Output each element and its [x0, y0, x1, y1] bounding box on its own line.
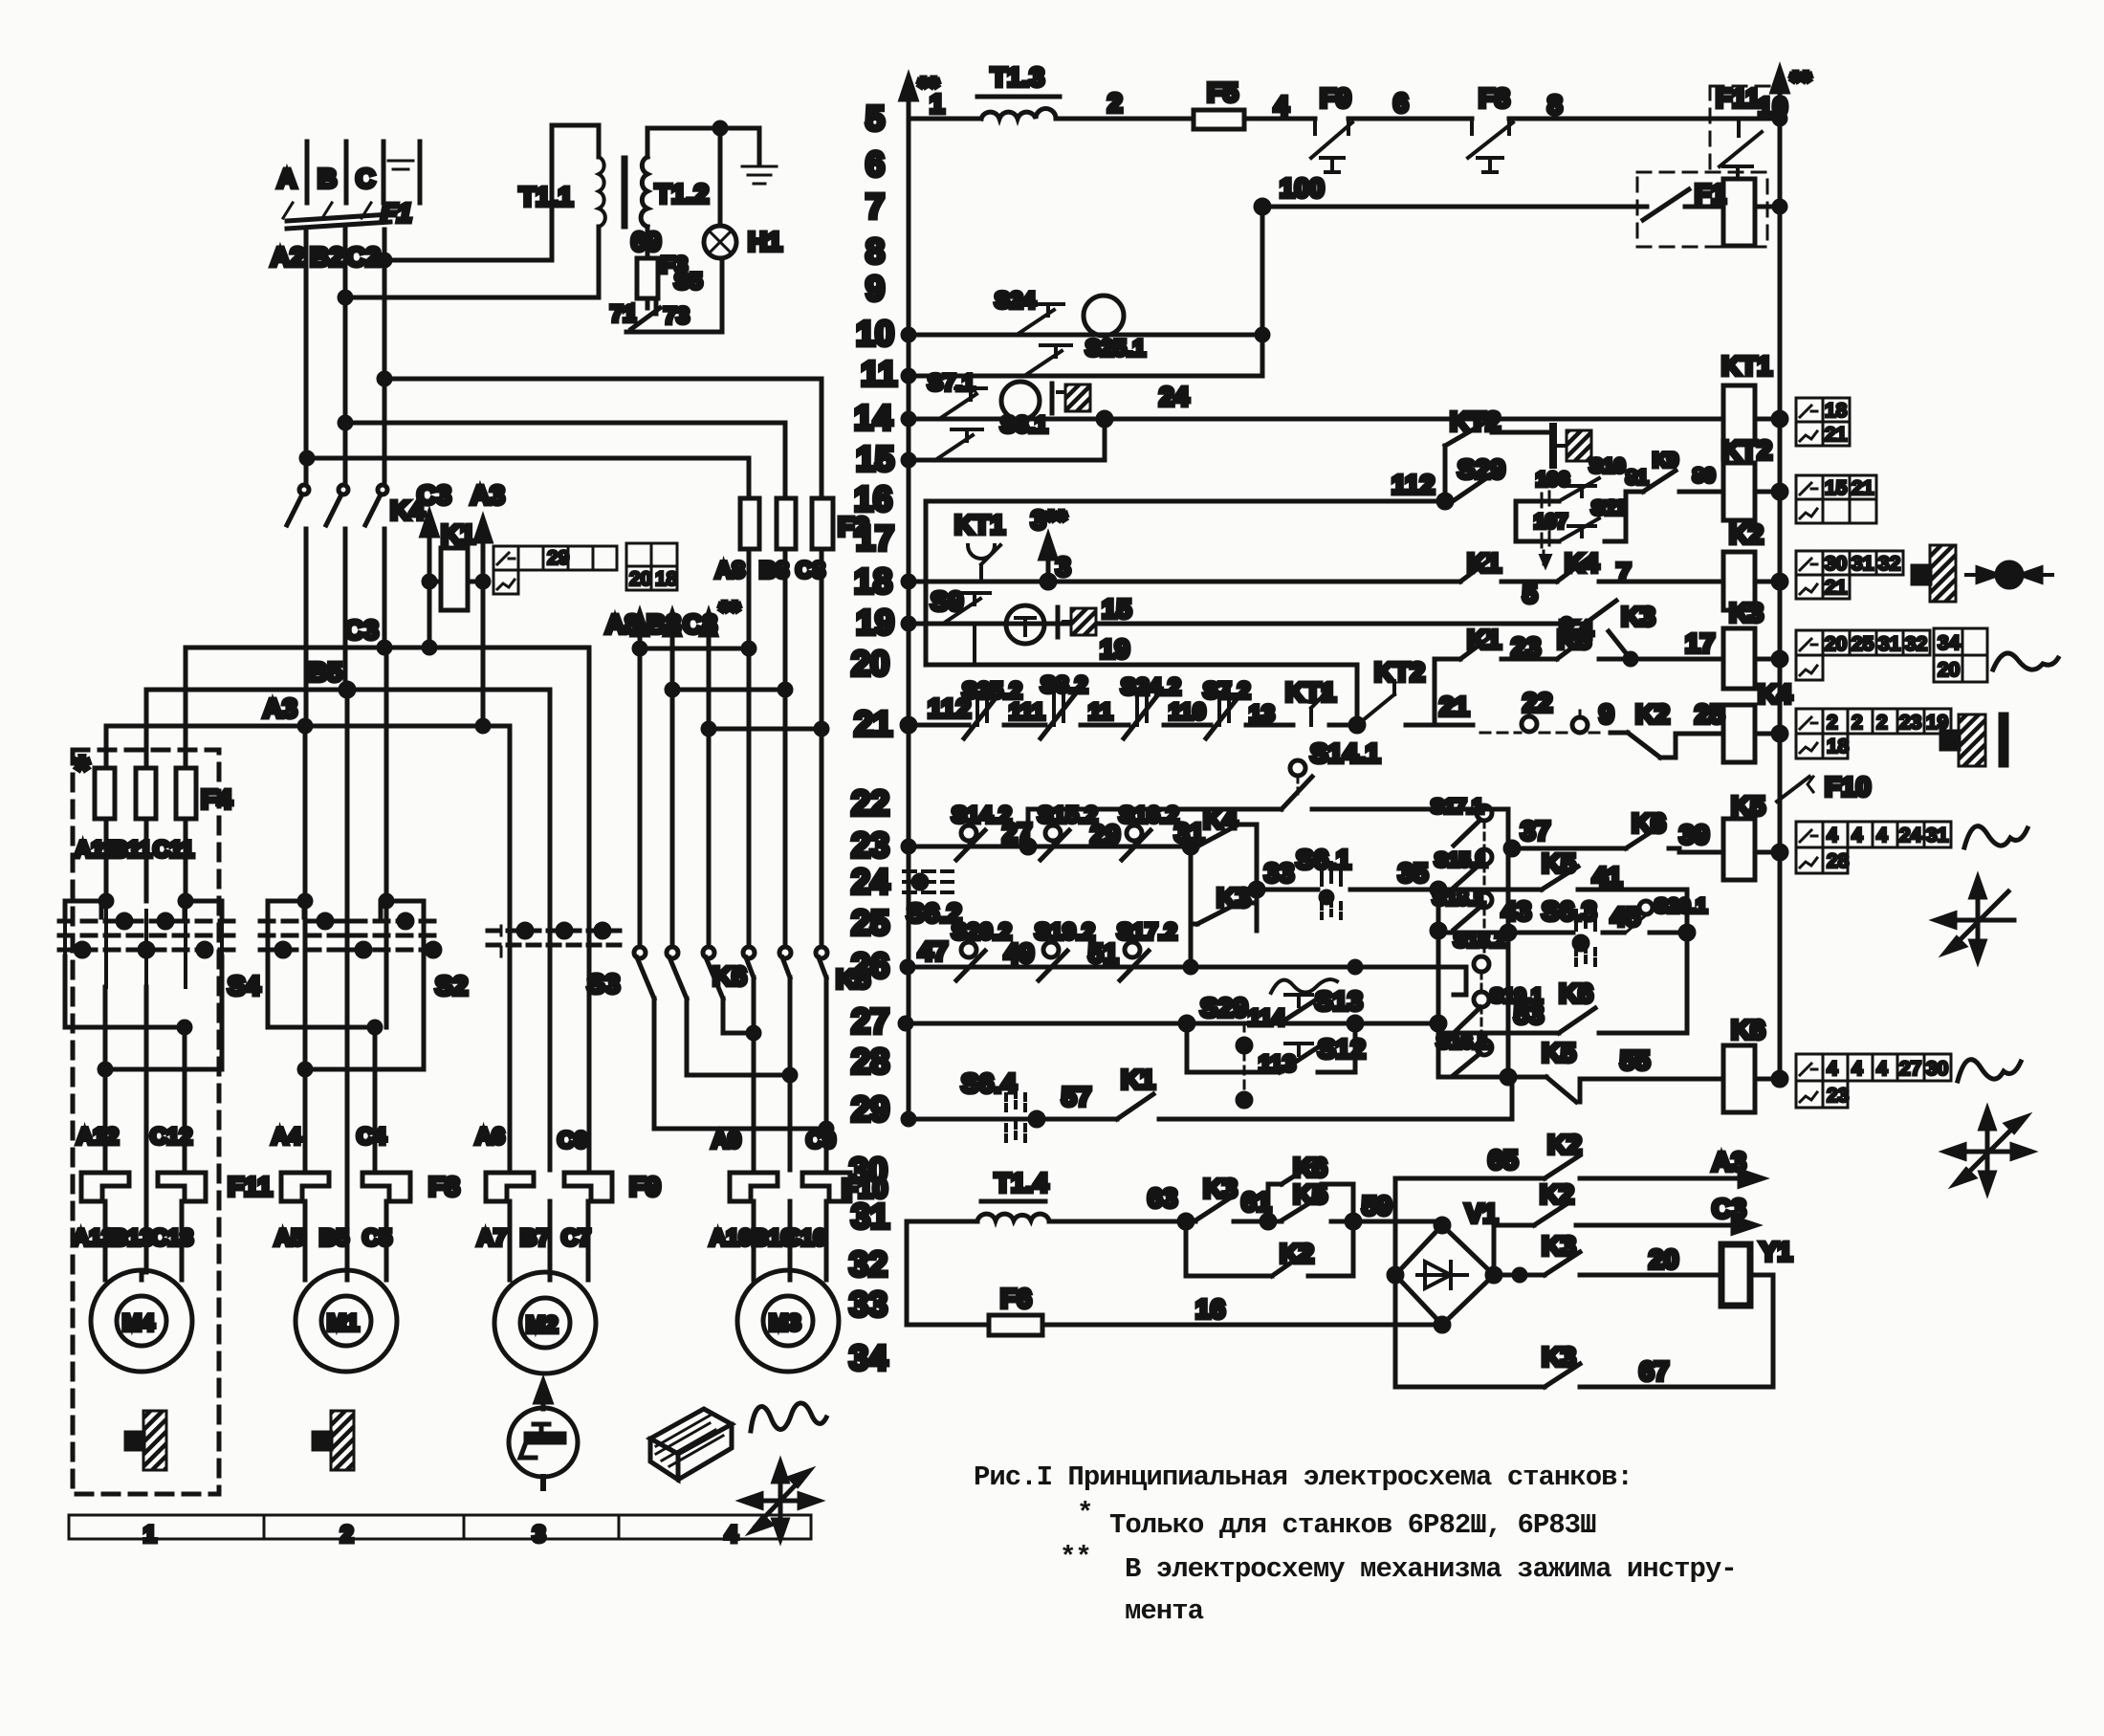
contact K2 row32 — [1186, 1221, 1353, 1276]
thermal element F10 — [730, 1173, 888, 1203]
svg-text:F11: F11 — [1716, 83, 1761, 113]
svg-text:24: 24 — [851, 862, 889, 901]
svg-text:A3: A3 — [1712, 1147, 1746, 1176]
svg-text:21: 21 — [1825, 424, 1848, 446]
svg-text:26: 26 — [851, 946, 889, 985]
row 31 line — [907, 1215, 1442, 1228]
dashed option box — [73, 750, 219, 1494]
solenoid Y1 — [1721, 1237, 1792, 1387]
svg-text:S6.3: S6.3 — [1542, 896, 1597, 926]
svg-text:B5: B5 — [308, 657, 342, 687]
svg-text:34: 34 — [1938, 632, 1961, 654]
contact K3 row24 — [1191, 846, 1257, 924]
svg-text:24: 24 — [1899, 824, 1922, 846]
svg-text:KT1: KT1 — [954, 510, 1005, 539]
electromagnet row19 — [1058, 607, 1096, 637]
svg-text:S8.1: S8.1 — [1000, 412, 1047, 438]
icon spindle M4 — [126, 1411, 166, 1470]
K3 contact table — [1796, 628, 1987, 682]
svg-text:K1: K1 — [441, 519, 475, 549]
svg-text:9: 9 — [1599, 699, 1614, 729]
svg-text:A13: A13 — [73, 1225, 115, 1251]
svg-text:H1: H1 — [748, 227, 782, 256]
svg-text:23: 23 — [1511, 632, 1541, 662]
svg-text:10: 10 — [856, 314, 894, 353]
contactor coil K5 — [1723, 791, 1786, 880]
row 43 line — [1438, 896, 1694, 939]
dashed box F11 — [1710, 86, 1771, 170]
row 26 line — [902, 924, 1466, 973]
wire M4 crossover — [65, 956, 222, 1272]
svg-text:C12: C12 — [150, 1124, 192, 1150]
svg-text:F9: F9 — [1320, 83, 1351, 113]
brake symbol row16 — [1553, 427, 1591, 465]
svg-text:22: 22 — [1523, 688, 1552, 717]
svg-text:K2: K2 — [1729, 519, 1764, 549]
svg-text:C3: C3 — [417, 480, 451, 510]
svg-text:1: 1 — [930, 89, 945, 119]
svg-text:18: 18 — [1827, 736, 1850, 758]
svg-text:F9: F9 — [629, 1172, 661, 1201]
fuse F4 b — [136, 768, 156, 819]
row 7 line 100 — [1256, 173, 1723, 220]
switch S17.2 — [1117, 919, 1177, 980]
svg-text:17: 17 — [1685, 628, 1715, 658]
svg-text:T1.3: T1.3 — [991, 62, 1044, 92]
svg-text:A6: A6 — [475, 1124, 505, 1150]
switch S14.2 — [952, 802, 1012, 860]
svg-text:25: 25 — [1852, 633, 1874, 655]
svg-text:A4: A4 — [272, 1124, 301, 1150]
motor M2 — [494, 1201, 596, 1373]
svg-text:S3: S3 — [587, 969, 620, 999]
svg-text:C3: C3 — [344, 615, 379, 645]
wavy symbol row26 — [1271, 979, 1337, 993]
svg-text:A: A — [277, 164, 296, 193]
bus left — [901, 72, 939, 1119]
svg-text:S12: S12 — [1318, 1034, 1366, 1064]
contactor K5 contacts — [743, 947, 870, 1170]
motor M3 — [737, 1201, 839, 1372]
svg-text:43: 43 — [1501, 896, 1531, 926]
contactor coil K2 — [1723, 519, 1786, 610]
svg-text:F4: F4 — [201, 784, 232, 814]
thermal element F9 — [486, 1172, 661, 1201]
svg-text:K4: K4 — [1758, 679, 1792, 709]
row 27 line — [900, 1017, 1438, 1030]
svg-text:21: 21 — [1439, 692, 1469, 721]
svg-text:M2: M2 — [526, 1312, 558, 1338]
svg-text:20: 20 — [1938, 659, 1960, 681]
svg-text:49: 49 — [1004, 938, 1034, 968]
KT1 contact table — [1796, 398, 1850, 446]
row 19 line 15 — [903, 594, 1572, 629]
row 18 line — [903, 575, 1723, 588]
svg-text:**: ** — [1060, 1542, 1091, 1573]
svg-text:K1: K1 — [1121, 1065, 1155, 1094]
svg-text:A7: A7 — [477, 1225, 507, 1251]
contactor K6 contacts — [634, 947, 747, 1129]
row 24 line 33 — [1250, 858, 1439, 896]
wire C8 arrow stub — [683, 596, 827, 735]
wire bus C to F2 — [379, 373, 822, 498]
svg-text:73: 73 — [664, 303, 690, 329]
switch S29 row16 — [1453, 454, 1505, 501]
svg-text:S17.2: S17.2 — [1117, 919, 1177, 945]
svg-text:30: 30 — [849, 1151, 888, 1190]
icon table — [650, 1409, 732, 1480]
svg-text:9: 9 — [866, 269, 885, 308]
row 15 line — [903, 419, 1105, 466]
svg-text:3: 3 — [1056, 552, 1071, 582]
switch S8.1 — [935, 412, 1047, 460]
svg-text:*: * — [1077, 1498, 1092, 1529]
wire A8 arrow stub — [605, 609, 755, 654]
svg-text:47: 47 — [918, 936, 948, 966]
svg-text:2: 2 — [1852, 712, 1863, 734]
svg-text:35: 35 — [1398, 858, 1428, 888]
transformer T1.2 — [641, 128, 720, 227]
right group left bracket — [1432, 883, 1445, 1077]
svg-text:C6: C6 — [558, 1128, 587, 1154]
svg-text:S24: S24 — [995, 288, 1036, 314]
svg-text:K3: K3 — [1621, 602, 1655, 631]
scale bar — [69, 1515, 811, 1548]
svg-text:45: 45 — [1611, 902, 1640, 932]
wire 100 vertical — [1260, 207, 1265, 376]
svg-text:S11: S11 — [1591, 497, 1627, 519]
svg-text:B11: B11 — [111, 837, 152, 863]
terminal B — [318, 142, 346, 203]
svg-text:A2: A2 — [271, 242, 305, 272]
svg-text:100: 100 — [1280, 173, 1325, 203]
terminal C — [356, 142, 384, 203]
row 23 line — [903, 809, 1197, 853]
svg-text:K6: K6 — [1559, 978, 1593, 1008]
contactor coil K6 — [1723, 1015, 1786, 1112]
switch S11 — [1534, 497, 1627, 568]
clutch S6.4 — [961, 1068, 1091, 1144]
bus right — [1772, 66, 1811, 1079]
breaker F1 dashed box — [1637, 172, 1767, 247]
svg-text:2: 2 — [1107, 88, 1123, 118]
ground top right — [720, 128, 777, 184]
svg-text:19: 19 — [856, 603, 894, 642]
vertical V1 left — [1393, 1178, 1398, 1387]
svg-text:S7.1: S7.1 — [928, 370, 975, 396]
svg-text:B8: B8 — [759, 558, 789, 583]
svg-text:3**: 3** — [1031, 505, 1066, 535]
svg-text:S20.1: S20.1 — [1655, 895, 1707, 917]
svg-text:11: 11 — [1088, 699, 1112, 725]
svg-text:S29: S29 — [1200, 993, 1248, 1022]
row 10 line — [903, 329, 1268, 341]
svg-text:4: 4 — [1852, 1058, 1863, 1080]
svg-text:T1.4: T1.4 — [995, 1168, 1048, 1198]
svg-text:15: 15 — [1825, 477, 1848, 499]
svg-text:F10: F10 — [1825, 772, 1871, 802]
row 16 line 112 — [926, 470, 1452, 665]
svg-text:B: B — [318, 164, 337, 193]
svg-text:16: 16 — [854, 479, 892, 518]
svg-text:20: 20 — [1649, 1244, 1678, 1274]
thermal contact F11 — [1716, 83, 1762, 179]
lamp H1 — [704, 122, 782, 258]
svg-text:21: 21 — [1825, 577, 1848, 599]
icon feed arrows K5 — [1936, 878, 2014, 960]
svg-text:114: 114 — [1248, 1005, 1285, 1031]
svg-text:29: 29 — [851, 1089, 889, 1129]
svg-text:S4: S4 — [228, 971, 261, 1000]
contact K1 row18 — [1460, 548, 1501, 582]
svg-text:5: 5 — [866, 99, 885, 138]
svg-text:28: 28 — [1827, 850, 1850, 872]
svg-text:23: 23 — [851, 825, 889, 865]
svg-text:A10: A10 — [710, 1225, 752, 1251]
svg-text:110: 110 — [1169, 699, 1206, 725]
svg-text:13: 13 — [1249, 701, 1275, 727]
svg-text:F1: F1 — [381, 198, 412, 228]
wire A3 distribution line — [106, 693, 510, 931]
switch S2 — [260, 895, 468, 1000]
contact K1 row29 — [1117, 1065, 1155, 1119]
contact KT2 row21 — [1357, 657, 1473, 725]
row 5 line — [909, 88, 1787, 124]
svg-text:51: 51 — [1088, 938, 1118, 968]
wire A11 column — [104, 726, 109, 901]
wire phase A vertical — [304, 230, 309, 484]
svg-text:20: 20 — [1825, 633, 1847, 655]
K2 contact table — [1796, 551, 1903, 599]
icon sine K5 — [1964, 826, 2027, 847]
row numbers — [849, 99, 897, 1377]
svg-text:6: 6 — [1393, 88, 1409, 118]
switch S19.1 — [1454, 967, 1543, 1033]
svg-text:C11: C11 — [153, 837, 194, 863]
svg-text:B2: B2 — [310, 242, 344, 272]
row 53 line — [1438, 1000, 1687, 1033]
svg-text:20: 20 — [851, 644, 889, 683]
row 11 line — [903, 370, 1262, 382]
icon sine K3 — [1993, 653, 2058, 670]
switch 22 dashed — [1480, 688, 1599, 733]
svg-text:4: 4 — [725, 1522, 738, 1548]
switch S20.2 — [952, 919, 1012, 980]
clutch S6.1 — [1296, 845, 1351, 918]
wire C3 distribution line — [186, 615, 589, 931]
svg-text:29: 29 — [1090, 820, 1120, 849]
wire C3 line — [1494, 1179, 1756, 1275]
svg-text:25: 25 — [1695, 699, 1724, 729]
svg-text:A5: A5 — [274, 1225, 304, 1251]
caption title — [974, 1461, 1737, 1627]
svg-text:10: 10 — [1758, 92, 1787, 121]
svg-text:20: 20 — [629, 568, 651, 590]
transformer T1.4 — [977, 1168, 1049, 1220]
svg-text:C4: C4 — [357, 1124, 386, 1150]
wire bus B to B8 fuse — [340, 417, 785, 498]
svg-text:7: 7 — [1616, 558, 1632, 587]
wire C11 column — [184, 648, 188, 901]
svg-text:106: 106 — [1536, 469, 1569, 491]
icon sine K6 — [1958, 1060, 2021, 1081]
svg-text:37: 37 — [1521, 816, 1550, 846]
wire B8 arrow stub — [647, 609, 791, 695]
row 14 line 24 — [903, 382, 1723, 426]
K1 contact table 2 — [626, 543, 678, 590]
wire feeds to K6 K5 contacts — [640, 648, 822, 946]
terminal PE ground — [388, 142, 420, 203]
contact K4 row18 — [1557, 548, 1599, 582]
svg-text:81: 81 — [1626, 467, 1649, 489]
rectifier V1 — [1389, 1198, 1501, 1331]
svg-text:29: 29 — [547, 547, 569, 569]
contact K5 row55 — [1542, 1038, 1576, 1102]
switch S13 — [1200, 986, 1363, 1031]
icon feed arrows K6 — [1945, 1110, 2031, 1192]
svg-text:B8: B8 — [647, 609, 681, 639]
svg-text:F8: F8 — [1479, 83, 1510, 113]
svg-text:K9: K9 — [1653, 450, 1678, 472]
wire C3 vertical arrow — [417, 480, 451, 648]
contact K3 jog — [1609, 602, 1655, 659]
contact K9 — [1626, 450, 1723, 492]
svg-text:S10: S10 — [1589, 455, 1625, 477]
svg-text:15: 15 — [856, 439, 894, 478]
transformer T1.1 — [519, 157, 605, 227]
wire 65 line A3 — [1395, 1130, 1763, 1186]
svg-text:**: ** — [1790, 66, 1811, 96]
S10 S11 bracket — [1516, 492, 1626, 541]
contact K3 row31 — [1195, 1174, 1238, 1220]
icon feed arrows — [742, 1462, 819, 1539]
wire 3 arrow — [1031, 505, 1071, 582]
svg-text:14: 14 — [854, 398, 892, 437]
svg-text:*: * — [75, 749, 90, 791]
switch S25.2 — [962, 678, 1022, 738]
svg-text:K2: K2 — [1280, 1239, 1314, 1268]
wire phase C vertical — [383, 230, 387, 484]
svg-text:53: 53 — [1514, 1000, 1544, 1029]
svg-text:6: 6 — [866, 144, 885, 184]
node A10 B10 C10 — [710, 1225, 826, 1251]
svg-text:55: 55 — [1620, 1045, 1650, 1075]
svg-text:мента: мента — [1125, 1595, 1204, 1627]
node junction row21 — [1350, 718, 1364, 732]
terminal A — [277, 142, 307, 203]
switch S19.2 — [1035, 919, 1095, 980]
svg-text:4: 4 — [1852, 824, 1863, 846]
svg-text:S20.2: S20.2 — [952, 919, 1012, 945]
svg-text:4: 4 — [1827, 1058, 1838, 1080]
svg-text:57: 57 — [1062, 1082, 1091, 1111]
contact K1 row20 — [1460, 625, 1501, 659]
switch S7.1 — [928, 370, 986, 419]
svg-text:3: 3 — [533, 1522, 545, 1548]
wire phase columns into S2 — [305, 648, 386, 911]
svg-text:F6: F6 — [1000, 1284, 1032, 1313]
fuse C8 F2 — [812, 498, 869, 729]
svg-text:C3: C3 — [1712, 1194, 1746, 1223]
clock symbol row19 — [1006, 605, 1044, 644]
switch S18.2 — [1454, 930, 1506, 972]
switch S7.2 — [1203, 678, 1250, 738]
svg-text:S5: S5 — [674, 269, 702, 295]
svg-text:4: 4 — [1876, 1058, 1888, 1080]
svg-text:18: 18 — [655, 568, 678, 590]
contact K4 row23 — [1197, 804, 1257, 931]
svg-text:S24.2: S24.2 — [1121, 674, 1181, 700]
svg-text:34: 34 — [849, 1338, 888, 1377]
switch S18.1 — [1433, 888, 1492, 930]
svg-text:27: 27 — [1002, 818, 1032, 847]
K4 contact table — [1796, 709, 1951, 758]
fuse F4 c — [176, 768, 232, 819]
svg-text:S6.4: S6.4 — [961, 1068, 1017, 1098]
node A7 B7 C7 — [477, 1225, 591, 1251]
svg-text:30: 30 — [1825, 553, 1847, 575]
svg-text:41: 41 — [1592, 862, 1622, 891]
row 20 right segment — [1435, 628, 1723, 725]
wire M3 crossover a — [723, 1027, 759, 1039]
svg-text:T1.1: T1.1 — [519, 182, 573, 211]
switch S8.2 — [1041, 672, 1087, 738]
breaker coil F1 — [1695, 179, 1786, 246]
svg-text:K2: K2 — [1635, 699, 1670, 729]
icon sine M3 — [751, 1403, 826, 1431]
svg-text:17: 17 — [856, 518, 894, 558]
svg-text:111: 111 — [1009, 699, 1044, 725]
fuse F4 a — [95, 768, 115, 819]
icon pump M2 — [509, 1381, 578, 1488]
svg-text:31: 31 — [1852, 553, 1874, 575]
K5 coil line row23 — [1508, 848, 1723, 852]
svg-text:K5: K5 — [1542, 1038, 1576, 1067]
switch S4 — [59, 895, 261, 1000]
wire B to T1.1 bottom — [340, 227, 599, 303]
svg-text:S13: S13 — [1315, 986, 1363, 1016]
svg-text:7: 7 — [866, 187, 885, 226]
svg-text:27: 27 — [1899, 1058, 1921, 1080]
switch S15.2 — [1038, 802, 1098, 860]
svg-text:A8: A8 — [715, 558, 745, 583]
svg-text:F8: F8 — [428, 1172, 460, 1201]
row 33 line 16 — [907, 1221, 1442, 1325]
svg-text:K5: K5 — [1731, 791, 1765, 821]
K1 contact table — [493, 546, 617, 594]
svg-text:33: 33 — [849, 1285, 888, 1324]
switch S20.1 — [1626, 895, 1707, 933]
svg-text:C: C — [356, 164, 375, 193]
motor M1 — [296, 1201, 397, 1372]
svg-text:S18.2: S18.2 — [1454, 930, 1506, 952]
svg-text:32: 32 — [849, 1244, 888, 1284]
svg-text:112: 112 — [1392, 470, 1435, 499]
svg-text:Только для станков 6Р82Ш, 6Р83: Только для станков 6Р82Ш, 6Р83Ш — [1109, 1509, 1596, 1541]
wire phase B vertical — [343, 230, 348, 484]
row 20 line 19 — [926, 634, 1357, 725]
wire B5 distribution line — [146, 657, 550, 931]
svg-text:A11: A11 — [75, 837, 116, 863]
thermal element F11 — [81, 1172, 273, 1201]
svg-text:23: 23 — [1827, 1085, 1849, 1107]
svg-text:8: 8 — [866, 231, 885, 271]
wire A3 vertical arrow — [471, 480, 505, 728]
svg-text:B5: B5 — [319, 1225, 349, 1251]
contact KT2 row16 — [1445, 407, 1549, 501]
contactor K4 main contacts — [287, 485, 425, 726]
svg-text:11: 11 — [861, 354, 897, 393]
